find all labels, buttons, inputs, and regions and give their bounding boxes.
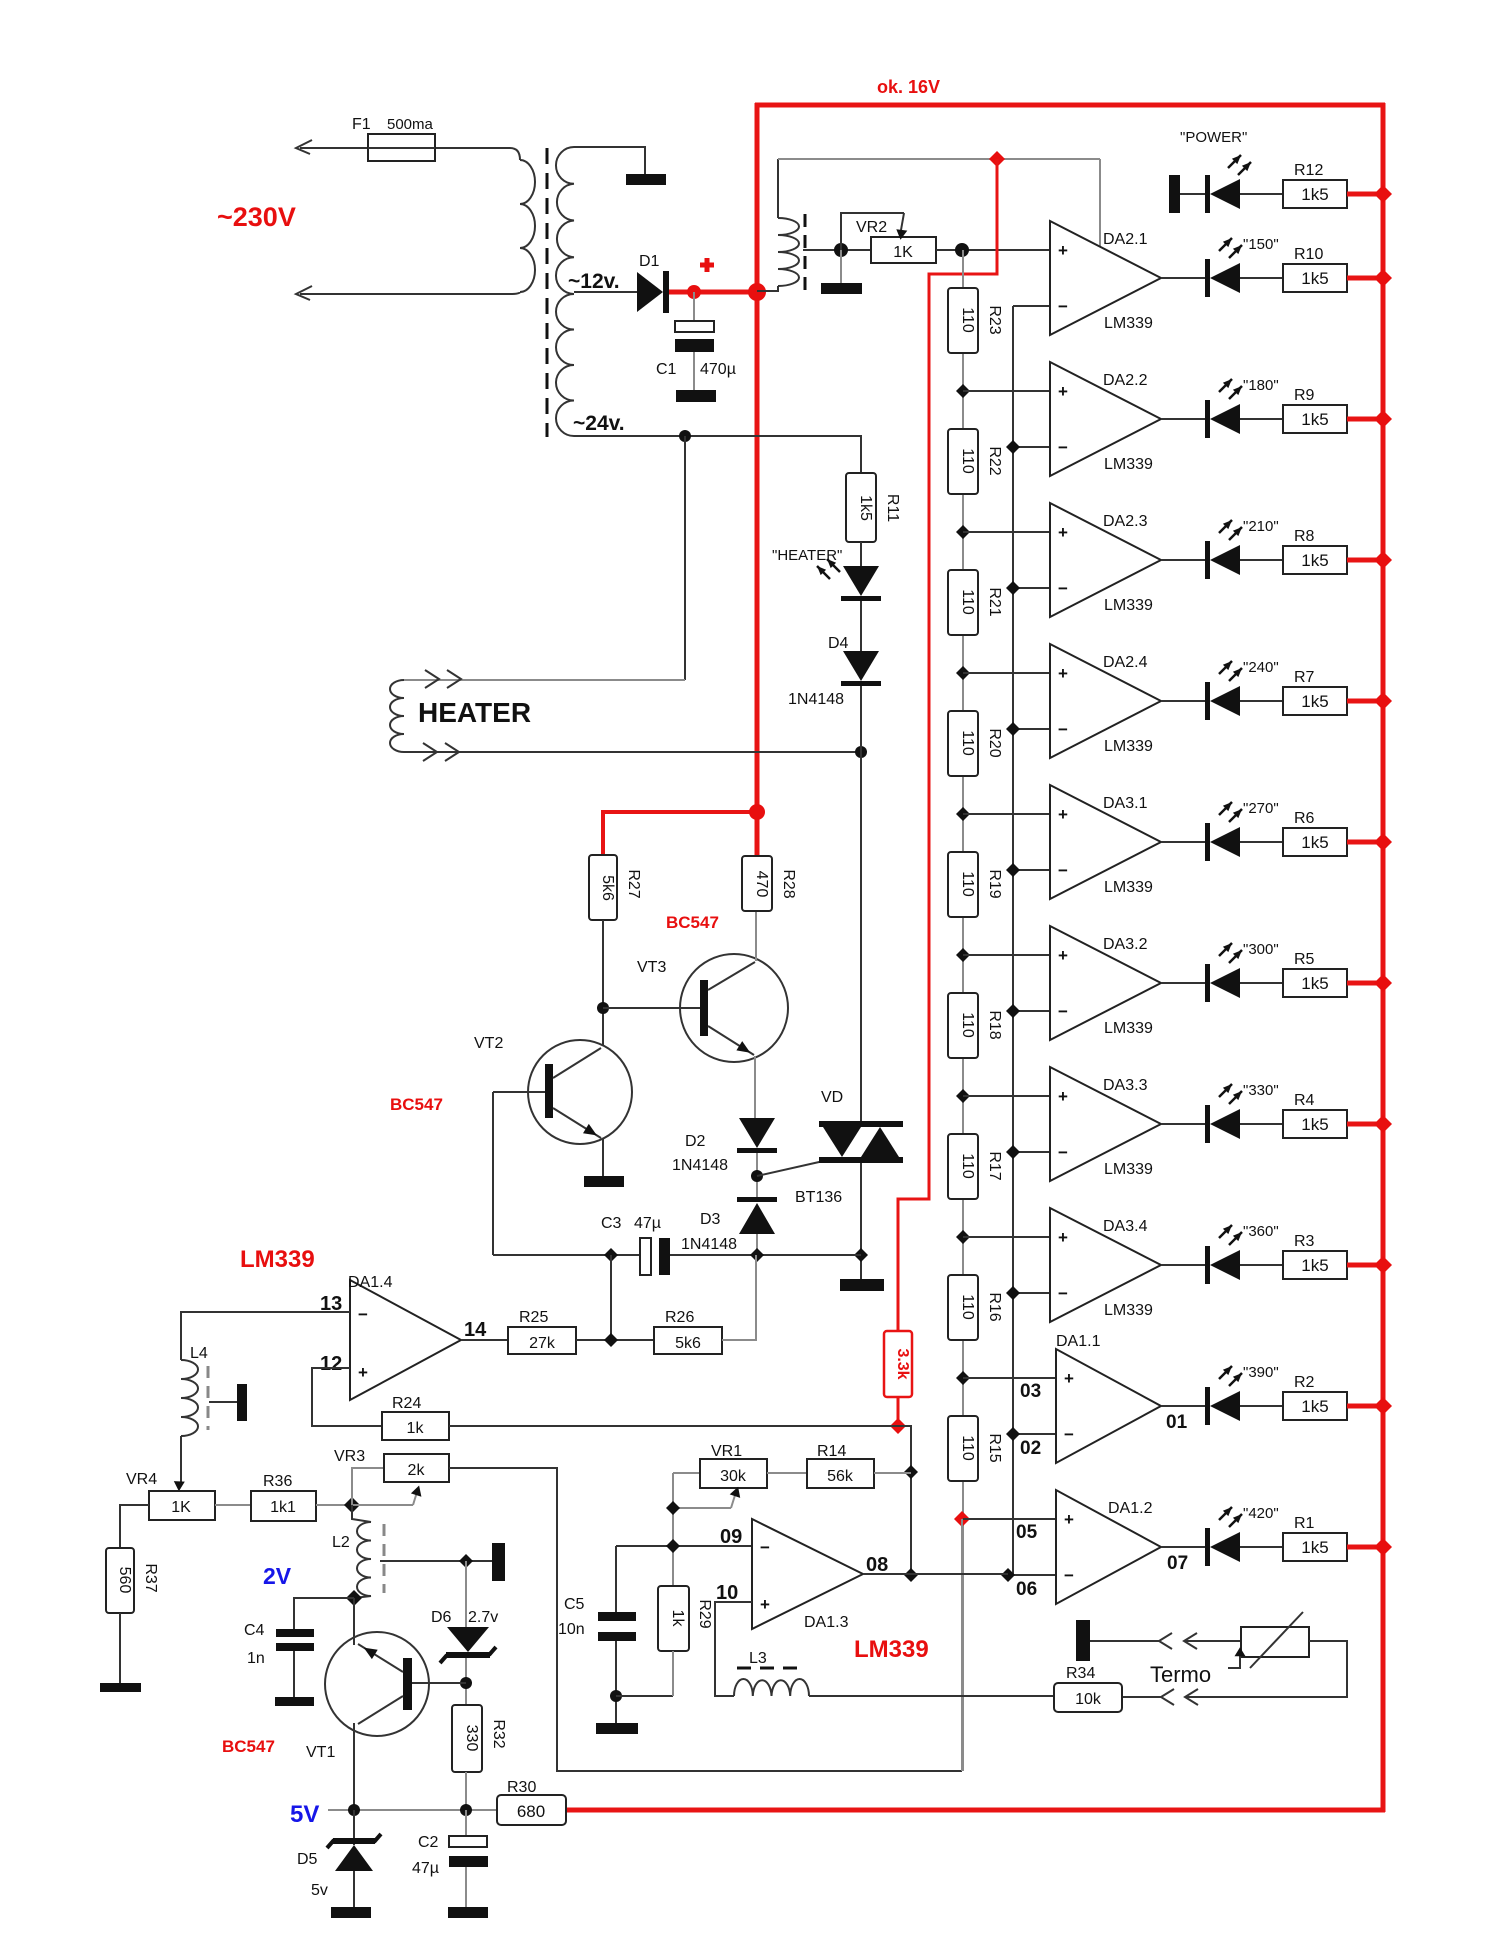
junction red bus / R27 branch [749,804,765,820]
svg-text:VT1: VT1 [306,1744,335,1761]
svg-text:R27: R27 [625,869,642,898]
VR1 wiper [673,1487,740,1508]
svg-text:"240": "240" [1243,659,1279,676]
wire plus stub row 8 [963,1236,1050,1238]
wire VT2 base down to C3 line [492,1092,494,1255]
svg-text:1n: 1n [247,1650,265,1667]
junction VR2 left node [834,243,848,257]
label VR1 [711,1443,742,1460]
LED '150' [1205,259,1240,297]
svg-text:R17: R17 [986,1151,1003,1180]
label DA1.4 [348,1274,393,1291]
svg-text:R7: R7 [1294,669,1315,686]
junction ladder tap 2 [956,525,970,539]
svg-text:"150": "150" [1243,236,1279,253]
wire D6 to VT1 base node [465,1658,467,1705]
wire R34 to plug [1122,1696,1161,1698]
label C4 [244,1622,265,1639]
junction C3 / D3 [750,1248,764,1262]
svg-text:+: + [1058,241,1068,260]
LED '180' [1205,400,1240,438]
op-amp DA3.3 (comparator) [1050,1067,1161,1181]
resistor R20 [948,711,978,776]
label R27 value 5k6 [599,875,616,901]
resistor R19 [948,852,978,917]
diode D4 [841,651,881,686]
label DA3.2 [1103,936,1148,953]
label C1 value 470µ [700,361,736,378]
wire VT1 collector to 5V rail [353,1723,355,1810]
label LM339 DA2.2 [1104,456,1153,473]
wire VR1 left [673,1472,700,1474]
label D1 [639,253,660,270]
wire pin10 loop to L3 [715,1602,752,1696]
label R24 [392,1395,421,1412]
label R17 [986,1151,1003,1180]
wire D4 to triac line [860,686,862,752]
wire L2 tap to ground bar [380,1560,494,1562]
svg-text:DA1.4: DA1.4 [348,1274,393,1291]
svg-text:−: − [1058,1002,1068,1021]
svg-text:110: 110 [959,307,976,333]
label R5 [1294,951,1315,968]
svg-text:L2: L2 [332,1534,350,1551]
label L3 [749,1650,767,1667]
wire LED to R4 [1240,1123,1283,1125]
svg-text:−: − [358,1305,368,1324]
node + symbol red [700,258,714,272]
svg-text:+: + [760,1595,770,1614]
svg-text:D6: D6 [431,1609,452,1626]
label R8 [1294,528,1315,545]
svg-text:−: − [760,1538,770,1557]
LED '360' emission arrows [1219,1225,1242,1245]
power stub bar (termo) [1076,1620,1090,1661]
svg-text:09: 09 [720,1526,742,1548]
resistor R2 [1283,1392,1347,1420]
junction minus bus row 7 [1006,1145,1020,1159]
mains input arrow top [296,140,312,154]
label R12 [1294,162,1323,179]
LED '330' emission arrows [1219,1084,1242,1104]
svg-text:1k: 1k [669,1610,686,1628]
triac VD BT136 [819,1121,903,1163]
potentiometer VR4 [149,1491,215,1520]
junction bus R7 [1374,692,1392,710]
junction ladder tap 6 [956,1089,970,1103]
wire D1 node to C1 [693,292,695,322]
wire R4 to +16V bus (red) [1347,1122,1383,1127]
junction ladder tap 8 [956,1371,970,1385]
pin 08 label [866,1554,888,1576]
svg-text:05: 05 [1016,1522,1038,1543]
label '390' [1243,1364,1279,1381]
wire VR2 node to ground [840,250,842,284]
resistor R7 [1283,687,1347,715]
LED '270' emission arrows [1219,802,1242,822]
label C3 value 47µ [634,1215,661,1232]
svg-text:R11: R11 [884,494,901,522]
resistor R34 [1054,1683,1122,1712]
wire 12v tap to D1 [574,291,637,293]
op-amp DA1.3 (comparator) [752,1519,863,1629]
mains input arrow bottom [296,286,312,300]
junction minus bus DA1.2 [1001,1568,1015,1582]
wire comparator output to LED R5 row [1161,982,1205,984]
junction bus R10 [1374,269,1392,287]
DA2.4 minus input symbol [1058,720,1068,739]
wire C3 line right [670,1254,861,1256]
diode D2 [737,1118,777,1153]
junction VT1 base / D6 / R32 [460,1677,472,1689]
svg-text:VT3: VT3 [637,959,666,976]
LED '420' emission arrows [1219,1507,1242,1527]
pin 01 label [1166,1412,1188,1433]
LED '210' [1205,541,1240,579]
svg-text:1k5: 1k5 [1301,1397,1328,1416]
label DA3.4 [1103,1218,1148,1235]
svg-text:R26: R26 [665,1309,694,1326]
junction bus R1 [1374,1538,1392,1556]
svg-text:DA1.3: DA1.3 [804,1614,849,1631]
wire R28 to VT3 collector [755,911,757,961]
svg-text:"180": "180" [1243,377,1279,394]
label R21 value 110 [959,589,976,615]
pin 09 label [720,1526,742,1548]
label BC547 (VT3) [666,913,719,932]
wire L3 to R34 [809,1695,1054,1697]
label D4 [828,635,849,652]
wire C1 to ground [693,352,695,391]
op-amp DA1.1 (comparator) [1056,1349,1161,1463]
svg-text:−: − [1058,297,1068,316]
svg-text:1k5: 1k5 [1301,269,1328,288]
wire 3.3k to R24 line [897,1397,900,1426]
resistor R37 [106,1548,134,1613]
node ok. 16V label [877,77,940,97]
resistor R23 [948,288,978,353]
svg-text:01: 01 [1166,1412,1188,1433]
junction 5V / VT1 [348,1804,360,1816]
label BC547 (VT2) [390,1095,443,1114]
LED 'POWER' emission arrows [1228,155,1251,175]
wire LED to R2 [1240,1405,1283,1407]
label 2V [263,1563,292,1589]
svg-text:"390": "390" [1243,1364,1279,1381]
svg-text:R21: R21 [986,587,1003,616]
wire VR2 to DA2.1 + [936,249,1050,251]
resistor R27 [589,855,617,920]
label D6 value 2.7v [468,1609,498,1626]
junction bus R3 [1374,1256,1392,1274]
label VT2 [474,1035,503,1052]
svg-text:BC547: BC547 [390,1095,443,1114]
svg-text:1k5: 1k5 [1301,410,1328,429]
label C5 value 10n [558,1621,585,1638]
wire mains input top lead [300,147,510,149]
label 5V [290,1801,319,1828]
svg-text:R34: R34 [1066,1665,1095,1682]
label DA3.3 [1103,1077,1148,1094]
svg-text:−: − [1064,1425,1074,1444]
label D2 value 1N4148 [672,1157,728,1174]
wire ladder chain [962,250,964,1771]
pin 03 label [1020,1381,1041,1402]
wire R12 to +16V bus (red) [1347,192,1383,197]
resistor R9 [1283,405,1347,433]
svg-text:LM339: LM339 [1104,1302,1153,1319]
label R32 value 330 [463,1725,480,1752]
svg-text:L3: L3 [749,1650,767,1667]
label R30 [507,1779,536,1796]
node ~230V label [217,202,296,232]
label C1 [656,361,677,378]
junction ladder tap 4 [956,807,970,821]
wire LM339 supply stub DA2.1 [1099,159,1101,248]
label R37 [142,1563,159,1592]
capacitor C1 minus plate [675,339,714,352]
wire comparator output to LED R8 row [1161,559,1205,561]
svg-text:F1: F1 [352,116,371,133]
svg-text:−: − [1058,861,1068,880]
svg-text:R12: R12 [1294,162,1323,179]
label LM339 DA3.2 [1104,1020,1153,1037]
wire triac to ground [860,1163,862,1280]
transistor VT3 [603,954,788,1062]
heater connector chevrons bottom [423,743,459,761]
pin 14 label [464,1319,487,1341]
svg-text:1k5: 1k5 [1301,833,1328,852]
wire R7 to +16V bus (red) [1347,699,1383,704]
LED '210' emission arrows [1219,520,1242,540]
wire D4 node down to triac VD [860,752,862,1121]
wire R25 to R26 [576,1339,654,1341]
wire R8 to +16V bus (red) [1347,558,1383,563]
wire top gray rail [778,158,1100,160]
resistor R12 [1283,180,1347,208]
label VT3 [637,959,666,976]
wire minus stub row 4 [1013,728,1050,730]
svg-text:VR2: VR2 [856,219,887,236]
label R20 value 110 [959,730,976,756]
svg-text:2.7v: 2.7v [468,1609,498,1626]
svg-text:R24: R24 [392,1395,421,1412]
label LM339 DA3.1 [1104,879,1153,896]
svg-text:500ma: 500ma [387,116,434,133]
label R3 [1294,1233,1315,1250]
heater element coil [390,680,404,752]
svg-text:D5: D5 [297,1851,318,1868]
label R1 [1294,1515,1315,1532]
label C2 [418,1834,439,1851]
LED '150' emission arrows [1219,238,1242,258]
wire R6 to +16V bus (red) [1347,840,1383,845]
svg-text:DA2.1: DA2.1 [1103,231,1148,248]
wire plus stub row 7 [963,1095,1050,1097]
ground bar C5 [596,1723,638,1734]
DA3.2 plus input symbol [1058,946,1068,965]
label R37 value 560 [116,1567,133,1594]
svg-text:HEATER: HEATER [418,697,531,728]
wire R36 to VR3 node [316,1504,352,1506]
label R27 [625,869,642,898]
resistor R29 [658,1586,689,1651]
svg-text:−: − [1058,1143,1068,1162]
ground bar VT2 emitter [584,1176,624,1187]
svg-text:VR4: VR4 [126,1471,157,1488]
svg-text:110: 110 [959,1435,976,1461]
wire aux tap to VR2 [803,249,871,251]
capacitor C3 left plate [640,1238,651,1275]
label '300' [1243,941,1279,958]
junction ladder tap 1 [956,384,970,398]
junction R14/feedback [904,1465,918,1479]
junction minus bus row 8 [1006,1286,1020,1300]
svg-text:R4: R4 [1294,1092,1315,1109]
label R29 [696,1599,713,1628]
resistor R15 [948,1416,978,1481]
label LM339 (DA1.3) red [854,1636,929,1663]
svg-text:1k1: 1k1 [270,1499,296,1516]
svg-text:1k: 1k [407,1420,425,1437]
DA1.2 minus input symbol [1064,1566,1074,1585]
label R22 [986,446,1003,475]
label R14 [817,1443,846,1460]
label R15 value 110 [959,1435,976,1461]
resistor R18 [948,993,978,1058]
junction C3 / R25-R26 branch [604,1248,618,1262]
svg-text:DA3.1: DA3.1 [1103,795,1148,812]
wire R5 to +16V bus (red) [1347,981,1383,986]
wire R2 to +16V bus (red) [1347,1404,1383,1409]
svg-text:R28: R28 [780,869,797,898]
svg-text:−: − [1064,1566,1074,1585]
wire termo top lead [1090,1640,1159,1642]
wire minus stub row 5 [1013,869,1050,871]
svg-text:10: 10 [716,1582,738,1604]
label R26 [665,1309,694,1326]
label '270' [1243,800,1279,817]
junction bus R4 [1374,1115,1392,1133]
wire comparator output to LED R4 row [1161,1123,1205,1125]
wire minus stub row 8 [1013,1292,1050,1294]
junction triac / C3 line [854,1248,868,1262]
wire +16V right red bus vertical [1381,103,1386,1812]
svg-text:C5: C5 [564,1596,585,1613]
label L2 [332,1534,350,1551]
junction 08 node [904,1568,918,1582]
label R18 value 110 [959,1012,976,1038]
wire VT2 emitter to ground [602,1139,604,1177]
svg-text:1N4148: 1N4148 [681,1236,737,1253]
svg-text:110: 110 [959,730,976,756]
svg-text:C3: C3 [601,1215,622,1232]
svg-text:110: 110 [959,589,976,615]
svg-text:R32: R32 [490,1719,507,1748]
junction bus R9 [1374,410,1392,428]
svg-text:"POWER": "POWER" [1180,129,1247,146]
label R7 [1294,669,1315,686]
svg-text:1k5: 1k5 [1301,974,1328,993]
DA2.4 plus input symbol [1058,664,1068,683]
svg-text:14: 14 [464,1319,487,1341]
wire minus stub DA1.2 / 08 node [1008,1574,1056,1576]
pin 12 label [320,1353,342,1375]
LED '300' emission arrows [1219,943,1242,963]
svg-text:"420": "420" [1243,1505,1279,1522]
svg-text:12: 12 [320,1353,342,1375]
DA3.1 plus input symbol [1058,805,1068,824]
junction bus R12 [1374,185,1392,203]
wire comparator output to LED R6 row [1161,841,1205,843]
wire minus stub row 2 [1013,446,1050,448]
svg-text:5k6: 5k6 [675,1335,701,1352]
DA3.3 plus input symbol [1058,1087,1068,1106]
svg-text:+: + [1058,664,1068,683]
svg-text:R36: R36 [263,1473,292,1490]
LED '360' [1205,1246,1240,1284]
svg-text:110: 110 [959,448,976,474]
label DA1.2 [1108,1500,1153,1517]
ground bar triac [840,1279,884,1291]
DA2.3 minus input symbol [1058,579,1068,598]
wire comparator output to LED R1 row [1161,1546,1205,1548]
label R32 [490,1719,507,1748]
wire C4 to ground [293,1651,295,1698]
op-amp DA2.2 (comparator) [1050,362,1161,476]
wire minus stub row 6 [1013,1010,1050,1012]
svg-text:LM339: LM339 [1104,738,1153,755]
svg-text:LM339: LM339 [1104,1161,1153,1178]
wire plus stub row 3 [963,531,1050,533]
svg-text:1N4148: 1N4148 [788,691,844,708]
svg-text:470µ: 470µ [700,361,736,378]
label LM339 DA2.1 [1104,315,1153,332]
junction ladder top [955,243,969,257]
wire R26 to D3 node [722,1255,756,1340]
DA1.4 minus input symbol [358,1305,368,1324]
wire LED to R9 [1240,418,1283,420]
svg-text:R30: R30 [507,1779,536,1796]
wire gate to triac [757,1160,828,1176]
svg-text:−: − [1058,438,1068,457]
svg-text:−: − [1058,1284,1068,1303]
wire R10 to +16V bus (red) [1347,276,1383,281]
wire D3 to C3 line [756,1234,758,1255]
svg-text:R10: R10 [1294,246,1323,263]
capacitor C5 bottom plate [598,1632,636,1641]
junction minus bus row 2 [1006,440,1020,454]
wire 09 line [616,1545,753,1547]
wire plus stub DA1.2 [963,1518,1056,1520]
wire DA1.4 out to R25 [461,1339,508,1341]
wire plus stub row 4 [963,672,1050,674]
svg-text:LM339: LM339 [1104,597,1153,614]
svg-text:"270": "270" [1243,800,1279,817]
wire VR3 right to big loop [449,1468,962,1771]
wire VT3 emitter to D2 [754,1056,756,1118]
potentiometer VR1 [700,1459,767,1488]
junction minus bus DA1.1 [1006,1427,1020,1441]
label R22 value 110 [959,448,976,474]
svg-text:5k6: 5k6 [599,875,616,901]
LED '300' [1205,964,1240,1002]
wire aux winding bottom to +16V bus [757,286,778,291]
transformer secondary winding upper ~12v [556,147,574,294]
svg-text:VT2: VT2 [474,1035,503,1052]
resistor R17 [948,1134,978,1199]
label R11 value 1k5 [857,495,874,521]
